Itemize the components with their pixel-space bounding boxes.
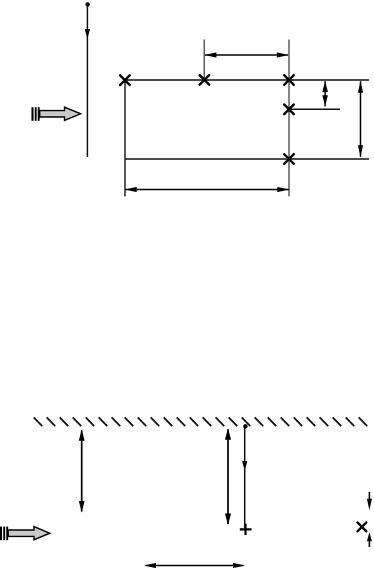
plus marker (pile tip) [240, 524, 252, 535]
ground hatching (bottom figure) [34, 417, 368, 426]
X marker pile 2 [200, 75, 210, 85]
small vertical dimension [322, 81, 328, 107]
anchor load line (top figure) [85, 2, 90, 157]
X marker pile 3 [284, 75, 294, 85]
bottom horizontal double arrow [144, 563, 245, 568]
middle short horizontal line [289, 108, 340, 110]
X marker pile 1 [120, 75, 130, 85]
right vertical line [288, 40, 290, 197]
tall vertical dimension [358, 81, 363, 157]
extension line mid [203, 40, 205, 81]
middle double arrow (bottom figure) [225, 428, 231, 525]
left vertical line [124, 80, 126, 196]
X marker borehole (bottom figure) [358, 523, 367, 532]
top dimension [205, 52, 289, 57]
X marker pile 5 [284, 154, 294, 164]
block arrow (top figure) [33, 107, 81, 121]
top horizontal line [125, 79, 370, 81]
bottom horizontal line [125, 158, 370, 160]
left double arrow (bottom figure) [79, 429, 85, 512]
right small dimension down arrow (bottom figure) [367, 492, 372, 510]
anchor load line (bottom figure) [242, 424, 247, 528]
X marker pile 4 [284, 105, 294, 115]
block arrow (bottom figure) [1, 527, 50, 541]
right small dimension up arrow (bottom figure) [367, 532, 372, 547]
bottom dimension [125, 187, 289, 192]
